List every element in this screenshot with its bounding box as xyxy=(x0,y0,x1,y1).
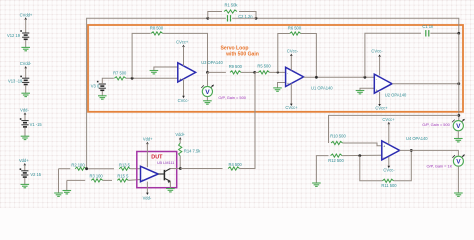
voltage source V2 15 battery xyxy=(20,163,29,177)
wire VM3 to ground xyxy=(457,166,459,193)
wire R6 to U1 output xyxy=(301,34,317,78)
wire R15 to DUT xyxy=(128,179,140,182)
node C1 tap xyxy=(364,76,367,79)
ground under V12 xyxy=(21,47,30,50)
wire V2 to ground xyxy=(24,178,26,184)
svg-text:CVdd+: CVdd+ xyxy=(20,12,33,17)
supply stub CVcc- below U3 xyxy=(183,79,185,97)
supply stub CVcc+ below U1 xyxy=(290,83,292,104)
svg-text:CVcc+: CVcc+ xyxy=(382,117,395,122)
node U3 output xyxy=(206,71,209,74)
ground under V3 xyxy=(101,91,103,96)
op-amp U2 OPA140 xyxy=(374,74,392,93)
wire VM1 to ground xyxy=(206,97,208,101)
node R9-R5 to DUT drive xyxy=(253,71,256,74)
node U2 output xyxy=(457,82,460,85)
resistor R7 500 xyxy=(114,77,126,80)
svg-text:-: - xyxy=(376,77,377,81)
svg-text:R3 100: R3 100 xyxy=(89,174,103,179)
wire R8 feedback branch up xyxy=(132,33,151,78)
wire C1 to output rail xyxy=(430,32,458,34)
ground stub at R12 input xyxy=(316,156,328,183)
capacitor C2 on feedback line xyxy=(208,17,226,19)
wire U1 non-inverting input to ground xyxy=(278,83,286,88)
node feedback-R1 right xyxy=(255,17,258,20)
wire R9 to node xyxy=(241,71,255,73)
svg-text:Vdd+: Vdd+ xyxy=(143,137,153,142)
wire U1 output to U2 xyxy=(304,76,375,78)
svg-text:-: - xyxy=(179,66,180,70)
node output rail to R10 line xyxy=(457,114,460,117)
ground at U1 non-inverting input xyxy=(273,88,282,91)
resistor R15 5 xyxy=(117,179,128,182)
wire R7 to U3 inverting input xyxy=(126,77,178,79)
wire R12 to U4 inverting input xyxy=(342,154,382,156)
wire output rail to R10 xyxy=(329,115,459,143)
resistor R10 500 xyxy=(331,141,343,144)
resistor R2 100 xyxy=(75,167,86,170)
voltage source V12 19 battery xyxy=(20,17,29,39)
node C1 to output rail xyxy=(457,32,460,35)
node R7-R8 junction xyxy=(131,77,134,80)
svg-text:R7 500: R7 500 xyxy=(113,71,127,76)
wire R4 up to servo input node xyxy=(240,72,255,168)
supply stub Vdd- below DUT xyxy=(146,182,148,194)
svg-text:R11 500: R11 500 xyxy=(381,183,397,188)
resistor R4 500 xyxy=(228,167,240,170)
svg-text:O/P, Gain = 1K: O/P, Gain = 1K xyxy=(427,163,453,168)
wire U3 output to voltmeter VM1 xyxy=(207,72,209,86)
svg-text:R13 5: R13 5 xyxy=(119,163,131,168)
servo loop boundary box xyxy=(88,25,463,112)
wire U4 output to VM3 xyxy=(400,150,459,156)
wire R11 feedback from R12 node xyxy=(360,156,383,181)
node R12 feedback junction xyxy=(358,154,361,157)
svg-text:+: + xyxy=(376,88,378,92)
svg-text:O/P, Gain = 500: O/P, Gain = 500 xyxy=(218,95,246,100)
svg-text:+: + xyxy=(179,78,181,82)
svg-text:V: V xyxy=(456,123,461,130)
wire feedback top left segment xyxy=(87,18,208,168)
svg-text:R14 7.5k: R14 7.5k xyxy=(184,148,201,153)
wire ground to R3 xyxy=(67,179,85,181)
wire U3 output to R9 xyxy=(208,71,226,73)
wire R10 to U4 non-inverting input xyxy=(343,143,382,146)
op-amp U1 OPA140 xyxy=(286,67,304,86)
wire R3 to R15 xyxy=(103,179,112,181)
svg-text:CVcc+: CVcc+ xyxy=(176,40,189,45)
svg-text:U1 OPA140: U1 OPA140 xyxy=(311,85,333,90)
svg-text:Vdd-: Vdd- xyxy=(143,196,152,201)
wire output rail down xyxy=(458,33,460,120)
svg-text:Vdd+: Vdd+ xyxy=(19,158,29,163)
svg-text:R5 500: R5 500 xyxy=(257,63,271,68)
ground under R2 input xyxy=(54,193,63,196)
ground under R12 input xyxy=(312,183,321,186)
resistor R6 500 xyxy=(290,32,301,35)
svg-text:CVcc+: CVcc+ xyxy=(285,105,298,110)
voltmeter VM3 O/P Gain 1K xyxy=(452,155,464,167)
svg-text:-: - xyxy=(287,71,288,75)
svg-text:U4 OPA140: U4 OPA140 xyxy=(406,136,428,141)
svg-text:Vdd+: Vdd+ xyxy=(175,132,185,137)
wire Vdd+ to R14 xyxy=(179,139,181,143)
svg-text:V3 0: V3 0 xyxy=(91,84,100,89)
svg-text:R6 500: R6 500 xyxy=(288,25,302,30)
ground under V13 xyxy=(21,93,30,96)
ground at U3 non-inverting input xyxy=(150,71,159,74)
svg-text:U5 LM111: U5 LM111 xyxy=(157,160,174,165)
resistor R8 500 xyxy=(151,32,163,35)
svg-text:V: V xyxy=(456,159,461,166)
node DUT output xyxy=(179,167,182,170)
resistor R14 7.5k pull-up xyxy=(179,143,182,156)
wire U2 output to rail xyxy=(392,83,459,85)
ground under VM2 xyxy=(454,139,463,142)
wire U2 non-inverting input to ground xyxy=(360,88,374,90)
node feedback-R1 left xyxy=(206,17,209,20)
svg-text:Vdd-: Vdd- xyxy=(20,107,29,112)
wire emitter to ground xyxy=(169,181,171,188)
svg-text:R1 50k: R1 50k xyxy=(225,3,239,8)
resistor R11 500 xyxy=(383,179,394,182)
ground under VM3 xyxy=(454,193,463,196)
wire ground to R2 xyxy=(59,168,71,170)
wire R14 to DUT output node xyxy=(179,156,181,169)
svg-text:R15 5: R15 5 xyxy=(117,174,129,179)
voltmeter VM2 O/P Gain 500 xyxy=(452,119,464,131)
ground at U2 non-inverting input xyxy=(356,91,365,94)
svg-text:R8 500: R8 500 xyxy=(150,26,164,31)
svg-text:V13 -19: V13 -19 xyxy=(8,78,23,83)
ground under R3 input xyxy=(63,191,72,194)
wire VM2 to ground xyxy=(457,131,459,138)
voltage source V13 -19 battery xyxy=(20,66,29,85)
svg-text:CVcc-: CVcc- xyxy=(287,49,299,54)
wire R11 to U4 output xyxy=(394,150,412,180)
resistor R5 500 xyxy=(255,71,259,73)
svg-text:-: - xyxy=(142,177,143,181)
wire V12 to ground xyxy=(25,40,27,47)
svg-text:U3 OPA140: U3 OPA140 xyxy=(201,60,223,65)
svg-text:CVdd-: CVdd- xyxy=(20,61,32,66)
supply stub CVcc- below U4 xyxy=(388,157,390,167)
svg-text:-: - xyxy=(383,156,384,160)
ground under VM1 xyxy=(203,101,212,104)
svg-text:R12 500: R12 500 xyxy=(328,158,344,163)
op-amp U3 OPA140 xyxy=(178,63,196,82)
ground stub at R2 input xyxy=(58,169,60,193)
comparator U5 triangle xyxy=(141,166,159,181)
svg-text:CVcc+: CVcc+ xyxy=(375,105,388,110)
wire C1 branch up xyxy=(365,33,421,77)
svg-text:R9 500: R9 500 xyxy=(229,64,243,69)
svg-text:with 500 Gain: with 500 Gain xyxy=(225,52,259,58)
DUT box xyxy=(137,152,177,188)
transistor Q output of U5 xyxy=(158,169,170,182)
resistor R3 100 xyxy=(91,179,103,182)
svg-text:V12 19: V12 19 xyxy=(7,33,21,38)
voltmeter VM1 O/P Gain 500 xyxy=(201,85,213,97)
svg-text:V2 15: V2 15 xyxy=(30,172,41,177)
svg-text:CVcc-: CVcc- xyxy=(178,98,190,103)
resistor R12 500 xyxy=(331,154,343,157)
wire R13 to DUT xyxy=(130,168,140,170)
wire V3 to R7 xyxy=(102,78,114,84)
node R6 tap on U1 input xyxy=(277,71,279,73)
svg-text:V1 -15: V1 -15 xyxy=(30,122,43,127)
svg-text:C1 1n: C1 1n xyxy=(422,24,434,29)
svg-text:C2 1.2n: C2 1.2n xyxy=(238,14,253,19)
svg-text:+: + xyxy=(383,145,385,149)
ground under U5 emitter xyxy=(166,189,175,192)
wire V1 to ground xyxy=(24,128,26,136)
ground under V1 xyxy=(21,136,30,139)
svg-text:+: + xyxy=(287,82,289,86)
wire V13 to ground xyxy=(25,85,27,93)
svg-text:R4 500: R4 500 xyxy=(228,162,242,167)
wire R6 feedback branch up xyxy=(278,34,290,73)
voltage source V1 -15 battery xyxy=(20,112,29,127)
node feedback to DUT input xyxy=(85,167,88,170)
svg-text:R10 500: R10 500 xyxy=(330,134,346,139)
node U1 output feedback tap xyxy=(315,76,318,79)
op-amp U4 OPA140 xyxy=(382,141,400,160)
svg-text:O/P, Gain = 500: O/P, Gain = 500 xyxy=(422,122,450,127)
svg-text:CVcc-: CVcc- xyxy=(371,49,383,54)
ground under V2 xyxy=(21,184,30,187)
wire feedback top right segment xyxy=(256,18,459,33)
svg-text:R2 100: R2 100 xyxy=(71,163,85,168)
resistor R1 50k loop branch xyxy=(208,12,222,19)
resistor R13 5 xyxy=(119,167,130,170)
resistor R9 500 xyxy=(230,71,241,74)
supply stub CVcc+ below U2 xyxy=(379,92,381,105)
svg-text:U2 OPA140: U2 OPA140 xyxy=(385,93,407,98)
wire R5 to U1 inverting input xyxy=(269,71,285,73)
wire U3 non-inverting input to ground xyxy=(154,67,178,70)
node U4 output xyxy=(410,149,413,152)
svg-text:CVcc-: CVcc- xyxy=(383,168,395,173)
ground stub at R3 input xyxy=(66,180,68,190)
wire R8 to U3 output xyxy=(163,33,208,72)
capacitor C1 1n xyxy=(426,30,429,36)
wire DUT output to R4 xyxy=(180,168,222,170)
voltage source V3 0 xyxy=(97,81,106,91)
wire collector to DUT output xyxy=(170,168,180,170)
wire R2 to feedback node xyxy=(86,168,114,170)
svg-text:V: V xyxy=(205,89,210,96)
